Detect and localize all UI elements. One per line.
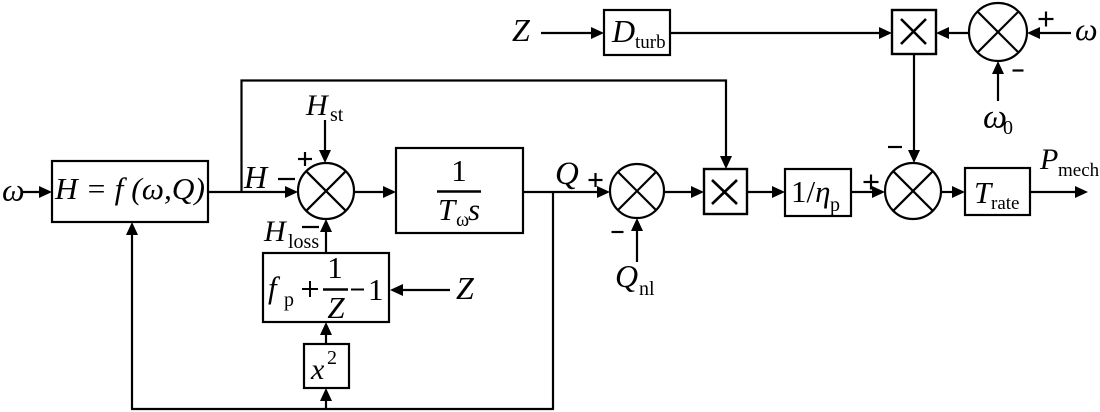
- label Z (into B3): [456, 270, 475, 306]
- label inside B7: 1/eta p: [791, 174, 840, 216]
- svg-text:P: P: [1039, 143, 1058, 176]
- label inside B1: H = f(w,Q): [54, 171, 205, 206]
- label inside B3: fp + 1/Z - 1: [268, 250, 384, 325]
- block Dturb: [604, 10, 670, 55]
- svg-text:loss: loss: [288, 231, 319, 253]
- wire: Z input into block fp right side: [390, 284, 450, 296]
- label inside B2: 1 over Tw s: [437, 153, 481, 231]
- svg-text:H: H: [305, 89, 330, 122]
- block 1/(Tw s): [396, 148, 523, 233]
- wire: Dturb output to multiplier M2: [670, 27, 892, 39]
- sign plus at S2: [589, 173, 603, 187]
- label inside B4: x^2: [310, 347, 337, 386]
- block H = f(w,Q): [52, 161, 208, 222]
- wire: B2 output to sum junction 2 (node Q): [523, 186, 610, 198]
- wire: bottom feedback up into B1 bottom: [126, 222, 138, 409]
- summing junction S4: [969, 3, 1027, 61]
- sign plus at S3: [864, 175, 879, 190]
- wire: Qnl arrow up into S2 bottom: [631, 218, 643, 262]
- summing junction S2: [610, 164, 664, 218]
- svg-text:Z: Z: [327, 290, 345, 325]
- wire: S1 output to block 1/Tws: [354, 186, 396, 198]
- label node H: [243, 159, 269, 195]
- block 1/eta_p: [785, 169, 851, 216]
- wire: B7 output to sum junction 3: [851, 186, 885, 198]
- svg-text:st: st: [330, 104, 344, 126]
- label inside B8: Trate: [974, 175, 1019, 214]
- svg-text:1: 1: [368, 272, 384, 307]
- wire: x^2 output up into block fp: [320, 322, 332, 344]
- wire: Z top input to block Dturb: [541, 27, 604, 39]
- label omega (top right input): [1075, 11, 1098, 47]
- multiplier M2 square: [892, 10, 936, 54]
- sign plus at S1: [298, 152, 312, 166]
- wire: B1 output to sum junction 1 (node H): [208, 186, 298, 198]
- label Hloss: [263, 215, 319, 253]
- svg-text:p: p: [830, 194, 840, 216]
- wire: S2 output to multiplier M1: [664, 186, 704, 198]
- svg-text:1: 1: [327, 250, 343, 285]
- svg-text:1: 1: [451, 153, 467, 188]
- svg-text:turb: turb: [635, 32, 666, 53]
- svg-text:nl: nl: [639, 278, 655, 300]
- svg-text:f: f: [268, 270, 281, 305]
- svg-text:1/η: 1/η: [791, 174, 831, 209]
- wire: omega input to block H=f: [22, 186, 52, 198]
- svg-text:H: H: [243, 159, 269, 195]
- svg-text:Q: Q: [555, 156, 579, 192]
- svg-text:p: p: [284, 289, 294, 311]
- wire: bottom feedback horizontal: [131, 408, 554, 410]
- svg-text:T: T: [438, 192, 458, 227]
- wire: bottom feedback up into x^2 block: [320, 388, 332, 409]
- sign plus at S4: [1039, 12, 1054, 27]
- svg-text:Z: Z: [512, 12, 531, 48]
- wire: omega0 arrow up into S4 bottom: [992, 61, 1004, 101]
- label Z (top input): [512, 12, 531, 48]
- summing junction S3: [885, 163, 941, 219]
- svg-text:Z: Z: [456, 270, 475, 306]
- block x^2: [304, 344, 349, 388]
- wire: H feedback up and over to multiplier M1 top: [242, 81, 733, 193]
- wire: M1 output to block 1/eta: [747, 186, 785, 198]
- wire: Hst arrow down into sum junction 1: [319, 120, 331, 163]
- svg-text:ω: ω: [1075, 11, 1098, 47]
- label Hst: [305, 89, 344, 126]
- wire: omega input into S4 right: [1027, 27, 1071, 39]
- svg-text:H = f (ω,Q): H = f (ω,Q): [54, 171, 205, 206]
- label node Q: [555, 156, 579, 192]
- sign minus at S2 bottom: [612, 231, 624, 233]
- svg-text:2: 2: [327, 347, 337, 369]
- svg-text:Q: Q: [615, 258, 638, 294]
- wire: block fp output up into S1 bottom (Hloss): [320, 219, 332, 253]
- multiplier M1 square: [704, 169, 747, 214]
- wire: M2 output down into S3 top: [908, 54, 920, 163]
- block Trate: [965, 168, 1030, 215]
- svg-text:rate: rate: [991, 193, 1019, 214]
- sign minus at S3 top: [888, 146, 902, 148]
- sign minus at S1 left (H): [278, 178, 295, 180]
- label Pmech: [1039, 143, 1100, 181]
- summing junction S1: [298, 163, 354, 219]
- sign minus at S1 bottom (Hloss): [302, 226, 319, 228]
- label omega (left input): [2, 172, 25, 208]
- wire: S4 output into M2 right side: [936, 27, 969, 39]
- wire: Trate output Pmech: [1030, 186, 1088, 198]
- label inside B5: Dturb: [611, 13, 666, 53]
- svg-text:mech: mech: [1058, 160, 1100, 181]
- wire: Q node down to bottom feedback: [552, 192, 554, 409]
- wire: S3 output to block Trate: [941, 186, 965, 198]
- svg-text:H: H: [263, 215, 288, 248]
- svg-text:ω: ω: [2, 172, 25, 208]
- svg-text:s: s: [468, 192, 480, 227]
- label omega0: [983, 99, 1013, 140]
- sign minus at S4 bottom: [1013, 69, 1024, 71]
- svg-text:0: 0: [1003, 117, 1013, 139]
- svg-text:D: D: [611, 13, 635, 49]
- svg-text:x: x: [310, 353, 325, 386]
- label Qnl: [615, 258, 655, 300]
- block fp + 1/Z - 1: [263, 253, 389, 322]
